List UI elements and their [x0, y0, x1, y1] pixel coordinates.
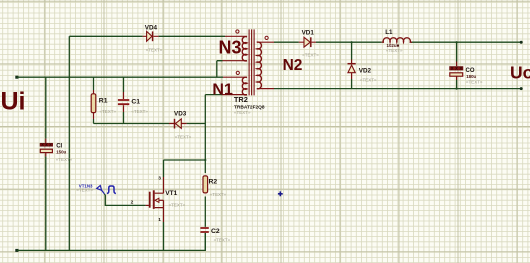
polarized capacitor CI	[40, 143, 53, 152]
svg-text:«TEXT»: «TEXT»	[466, 79, 483, 84]
svg-text:2: 2	[131, 200, 134, 206]
capacitor C2	[200, 228, 208, 232]
svg-text:L1: L1	[385, 29, 393, 36]
svg-text:N2: N2	[283, 57, 303, 74]
diode VD4	[143, 31, 159, 41]
svg-text:VD1: VD1	[302, 29, 315, 36]
transformer winding N2	[257, 42, 262, 89]
resistor R2	[203, 176, 208, 193]
svg-text:VD4: VD4	[145, 24, 158, 31]
node: junction VD2/top rail	[351, 41, 353, 43]
wire: left return column x=69	[68, 36, 70, 250]
svg-text:«TEXT»: «TEXT»	[131, 109, 148, 114]
svg-text:VD3: VD3	[174, 111, 187, 118]
wire: N3 bottom pin to main bus	[217, 61, 247, 77]
node: junction CO/top rail	[456, 41, 458, 43]
mosfet VT1	[149, 190, 164, 209]
svg-text:TR2: TR2	[234, 95, 248, 104]
wire: VT1 drain vertical	[163, 160, 165, 193]
node: Ui+ rail left end dot	[15, 76, 18, 79]
svg-text:«TEXT»: «TEXT»	[56, 157, 73, 162]
svg-text:Ui: Ui	[1, 88, 26, 116]
node: output top right end dot	[520, 41, 523, 44]
wire: drain link wire y=160	[164, 159, 206, 161]
svg-text:C1: C1	[131, 99, 140, 106]
polarized capacitor CO	[450, 67, 464, 77]
node: bottom bus left end dot	[15, 249, 18, 252]
wire: VT1 source vertical to bottom bus	[163, 208, 165, 251]
svg-text:R2: R2	[209, 178, 218, 185]
svg-text:«TEXT»: «TEXT»	[146, 47, 163, 52]
svg-text:«TEXT»: «TEXT»	[234, 110, 251, 115]
svg-text:VD2: VD2	[359, 67, 372, 74]
wire: input cap CI column	[45, 77, 47, 250]
svg-text:«TEXT»: «TEXT»	[386, 48, 403, 53]
svg-text:R1: R1	[99, 98, 108, 105]
polarity dot N1	[236, 71, 239, 74]
svg-text:«TEXT»: «TEXT»	[76, 188, 93, 193]
svg-text:N3: N3	[219, 38, 242, 58]
wire: CO output cap branch	[456, 42, 458, 88]
diode VD1	[299, 37, 316, 47]
wire: R1 column from bus to snubber line	[93, 77, 95, 123]
capacitor C1	[118, 100, 129, 104]
polarity dot N3	[236, 30, 239, 33]
transformer winding N3	[242, 37, 247, 61]
wire: gate drive wire	[104, 194, 149, 206]
polarity dot N2	[265, 36, 268, 39]
svg-text:N1: N1	[212, 81, 233, 98]
svg-text:150u: 150u	[56, 149, 66, 154]
node: junction CO/bottom rail	[456, 88, 458, 90]
svg-text:3: 3	[158, 176, 161, 182]
wire: N1 bottom pin to switch column	[205, 94, 247, 96]
diode VD2 (cathode up)	[348, 64, 356, 73]
wire: main input bus y=77.2 to N1 top pin	[17, 76, 247, 78]
wire: N2 top pin to VD1	[257, 41, 299, 43]
wire: output bottom rail from N2 bottom	[257, 88, 522, 90]
resistor R1	[91, 94, 96, 113]
svg-text:«TEXT»: «TEXT»	[210, 192, 227, 197]
svg-text:«TEXT»: «TEXT»	[360, 77, 377, 82]
wire: C1 column from bus to snubber line	[123, 77, 125, 123]
wire: L1 to output node	[411, 41, 522, 43]
diode VD3 (cathode left)	[175, 119, 182, 129]
svg-text:«TEXT»: «TEXT»	[214, 238, 231, 243]
svg-text:«TEXT»: «TEXT»	[302, 53, 319, 58]
wire: VD1 cathode to L1	[316, 41, 382, 43]
node: junction drain wire / column	[204, 159, 206, 161]
gate pulse waveform glyph (blue)	[107, 186, 116, 194]
wire: snubber bottom line R1/C1 to VD3 to N1 column	[94, 123, 206, 125]
node: output bottom right end dot	[520, 87, 523, 90]
svg-text:VT1: VT1	[165, 190, 177, 197]
wire: VD2 freewheel branch	[351, 42, 353, 88]
svg-text:1: 1	[158, 217, 161, 223]
wire: top reset rail from left column to N3 top	[69, 35, 247, 37]
gate drive port flag (blue)	[97, 186, 105, 194]
transformer TR2 core (3 lines)	[249, 29, 254, 95]
svg-text:«TEXT»: «TEXT»	[169, 203, 186, 208]
wire: switch/N1 column x=205.3 down through R2 C2	[204, 95, 206, 251]
svg-text:«TEXT»: «TEXT»	[100, 109, 117, 114]
svg-text:«TEXT»: «TEXT»	[175, 135, 192, 140]
svg-text:C2: C2	[211, 228, 220, 235]
inductor L1	[382, 38, 412, 42]
transformer winding N1	[242, 77, 247, 95]
wire: bottom return bus	[17, 233, 206, 250]
svg-text:Uo: Uo	[510, 62, 530, 82]
no-ERC marker blue cross	[278, 191, 283, 196]
